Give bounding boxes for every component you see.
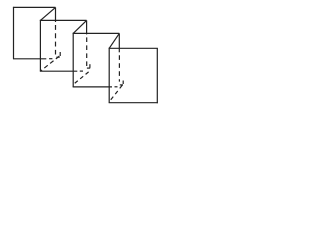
fold diagonal J2 top <box>73 20 86 33</box>
S4 left edge <box>108 48 110 103</box>
fold arrow A1 <box>59 52 61 56</box>
S2 bottom edge hidden <box>80 70 83 72</box>
S2 left edge <box>39 20 41 71</box>
S2 bottom edge visible <box>40 70 77 72</box>
S4 bottom edge <box>109 102 158 104</box>
S3 left edge <box>72 33 74 87</box>
S4 right edge <box>156 48 158 103</box>
fold arrow A2 <box>89 64 91 68</box>
fold diagonal J3 top <box>109 33 119 48</box>
fold diagonal J1 top <box>40 7 55 20</box>
S3 bottom edge hidden <box>115 86 118 88</box>
panel S4 <box>109 48 158 103</box>
S3 bottom edge visible <box>73 86 112 88</box>
panel S3 <box>73 33 120 87</box>
S2 right edge hidden <box>86 37 88 66</box>
panel S1 <box>13 7 56 59</box>
S1 left edge <box>13 7 15 59</box>
fold diagonal J1 bottom hidden <box>40 56 59 71</box>
S4 top edge <box>109 47 158 49</box>
S2 top edge <box>40 19 87 21</box>
S3 right edge visible <box>118 33 120 52</box>
S1 right edge visible <box>55 7 57 22</box>
fold diagonal J3 bottom hidden <box>109 85 122 101</box>
fold arrow A3 <box>122 81 124 85</box>
S1 right edge hidden <box>55 25 57 55</box>
S1 bottom edge visible <box>13 58 46 60</box>
S3 top edge <box>73 32 120 34</box>
panel S2 <box>40 20 87 71</box>
fold diagonal J2 bottom hidden <box>73 72 88 85</box>
S3 right edge hidden <box>118 55 120 81</box>
S1 bottom edge hidden <box>49 58 52 60</box>
folded strip diagram <box>0 0 164 109</box>
S2 right edge visible <box>86 20 88 34</box>
S1 top edge <box>13 6 56 8</box>
